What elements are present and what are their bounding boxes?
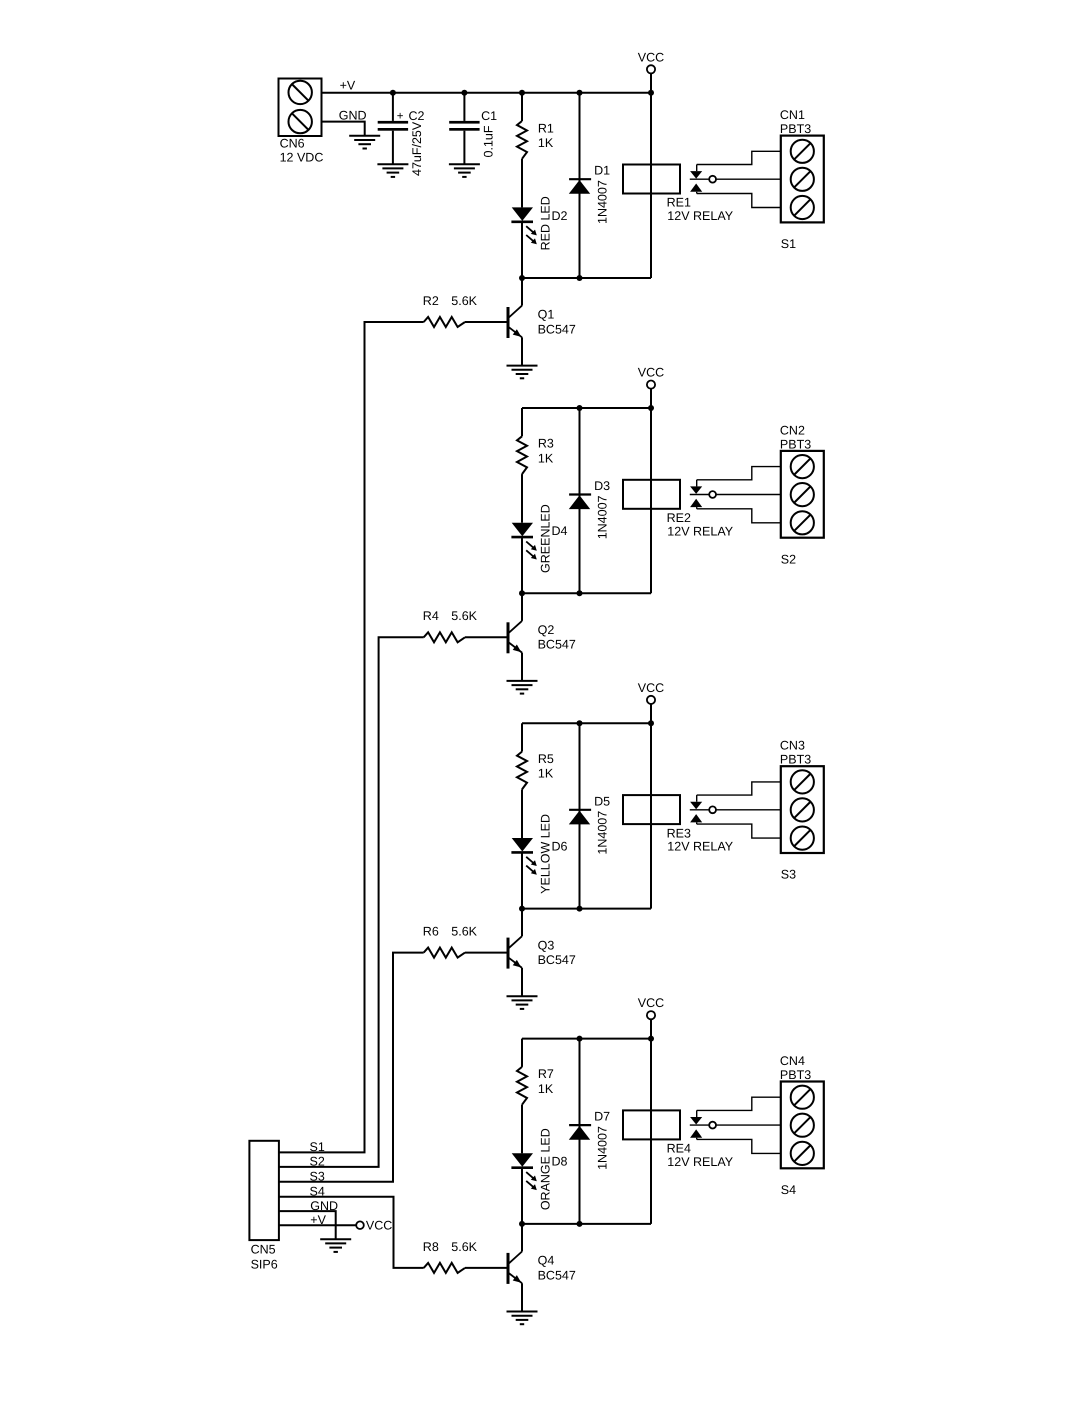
wire GND from CN6 to ground [322,122,365,136]
resistor R1 1K [517,93,554,208]
svg-text:D1: D1 [594,164,610,178]
wire relay NC contact to CN4 pin 1 [697,1097,781,1110]
wire +V bus channel 4 [522,1038,651,1040]
svg-text:R5: R5 [538,752,554,766]
ground at Q2 emitter [507,681,538,694]
svg-text:PBT3: PBT3 [780,437,811,451]
svg-text:PBT3: PBT3 [780,1068,811,1082]
svg-text:Q1: Q1 [538,308,555,322]
svg-text:RED LED: RED LED [538,196,552,250]
junction dot VCC/bus channel 3 [648,720,654,726]
diode D5 1N4007 flyback [569,723,610,908]
VCC supply symbol channel 4 [638,996,664,1038]
wire +V bus channel 3 [522,722,651,724]
svg-text:12V RELAY: 12V RELAY [667,1155,733,1169]
wire S4 from CN5 to Q4 base resistor R8 [279,1197,424,1268]
svg-text:12V RELAY: 12V RELAY [667,524,733,538]
junction dot LED D2 bottom [519,275,525,281]
junction dot D3 bottom [577,590,583,596]
svg-text:BC547: BC547 [538,322,576,336]
svg-text:S1: S1 [781,237,796,251]
svg-text:BC547: BC547 [538,1268,576,1282]
svg-text:12V RELAY: 12V RELAY [667,209,733,223]
svg-text:VCC: VCC [638,50,664,64]
resistor R8 5.6K base resistor [423,1240,507,1273]
junction dot VCC/bus channel 2 [648,405,654,411]
svg-text:VCC: VCC [638,681,664,695]
junction dot C2 on +V bus [390,90,396,96]
svg-text:GND: GND [339,108,367,122]
LED D4 GREENLED [511,523,567,594]
junction dot VCC/bus channel 1 [648,90,654,96]
junction dot D5 bottom [577,906,583,912]
svg-text:BC547: BC547 [538,638,576,652]
relay RE4 coil [623,1110,734,1169]
connector CN4 PBT3 screw terminal [780,1054,824,1168]
svg-text:5.6K: 5.6K [451,609,477,623]
svg-text:VCC: VCC [638,366,664,380]
svg-text:0.1uF: 0.1uF [482,125,496,157]
svg-text:R1: R1 [538,121,554,135]
connector CN5 SIP6 [249,1141,279,1272]
svg-text:R6: R6 [423,925,439,939]
VCC supply symbol channel 3 [638,681,664,723]
ground at CN5 [320,1239,351,1252]
svg-text:47uF/25V: 47uF/25V [410,121,424,176]
relay RE3 contacts [690,795,781,824]
wire S3 from CN5 to Q3 base resistor R6 [279,953,424,1182]
wire GND from CN5 to ground [279,1211,336,1239]
svg-text:+: + [397,111,404,123]
wire +V from CN5 to VCC terminal [279,1224,356,1226]
wire relay NC contact to CN2 pin 1 [697,467,781,480]
svg-text:1K: 1K [538,451,554,465]
wire S2 from CN5 to Q2 base resistor R4 [279,637,424,1167]
svg-text:C2: C2 [409,109,425,123]
svg-text:R4: R4 [423,609,439,623]
junction dot LED D8 bottom [519,1221,525,1227]
svg-text:5.6K: 5.6K [451,294,477,308]
resistor R5 1K [517,723,554,838]
junction dot VCC/bus channel 4 [648,1036,654,1042]
relay RE1 contacts [690,165,781,194]
svg-text:D6: D6 [552,839,568,853]
diode D7 1N4007 flyback [569,1039,610,1224]
svg-text:C1: C1 [481,109,497,123]
junction dot LED D4 bottom [519,590,525,596]
connector CN1 PBT3 screw terminal [780,108,824,222]
svg-text:1K: 1K [538,1082,554,1096]
diode D3 1N4007 flyback [569,408,610,593]
svg-text:YELLOW LED: YELLOW LED [538,814,552,894]
relay RE4 contacts [690,1110,781,1139]
junction dot C1 on +V bus [461,90,467,96]
svg-text:Q4: Q4 [538,1254,555,1268]
junction dot LED D6 bottom [519,906,525,912]
junction dot D5 top [577,720,583,726]
wire relay NO contact to CN3 pin 3 [697,824,781,838]
ground at C2 [377,164,408,177]
svg-text:CN3: CN3 [780,739,805,753]
wire relay NC contact to CN3 pin 1 [697,782,781,795]
junction dot D1 top [577,90,583,96]
ground at CN6 [349,136,380,149]
svg-text:5.6K: 5.6K [451,1240,477,1254]
junction dot D3 top [577,405,583,411]
junction dot D7 bottom [577,1221,583,1227]
resistor R3 1K [517,408,554,523]
capacitor C2 47uF/25V [378,93,425,176]
wire relay NO contact to CN2 pin 3 [697,509,781,523]
resistor R4 5.6K base resistor [423,609,507,642]
svg-text:BC547: BC547 [538,953,576,967]
svg-text:12 VDC: 12 VDC [280,151,324,165]
capacitor C1 0.1uF [449,93,497,165]
svg-text:Q3: Q3 [538,938,555,952]
svg-text:CN5: CN5 [251,1242,276,1256]
transistor Q4 BC547 [508,1224,576,1312]
svg-text:CN1: CN1 [780,108,805,122]
junction dot D1 bottom [577,275,583,281]
wire VCC column through relay coil RE3 [650,704,652,909]
svg-text:1N4007: 1N4007 [596,495,610,539]
svg-text:RE2: RE2 [667,511,691,525]
svg-text:D4: D4 [552,524,568,538]
wire relay NO contact to CN4 pin 3 [697,1139,781,1153]
svg-text:GREENLED: GREENLED [538,504,552,573]
VCC terminal at CN5 +V pin [356,1219,392,1233]
svg-text:VCC: VCC [366,1219,392,1233]
relay RE3 coil [623,795,734,854]
transistor Q1 BC547 [508,278,576,366]
LED D8 ORANGE LED [511,1153,567,1224]
svg-text:D2: D2 [552,209,568,223]
wire collector rail channel 1 [522,277,651,279]
relay RE2 coil [623,480,734,539]
transistor Q3 BC547 [508,909,576,997]
svg-text:S3: S3 [781,868,796,882]
ground at Q4 emitter [507,1312,538,1325]
wire VCC column through relay coil RE1 [650,73,652,278]
svg-text:S2: S2 [781,552,796,566]
wire relay NO contact to CN1 pin 3 [697,194,781,208]
svg-text:S4: S4 [781,1183,796,1197]
svg-text:1K: 1K [538,767,554,781]
junction dot R1 on +V bus [519,90,525,96]
svg-text:R2: R2 [423,294,439,308]
transistor Q2 BC547 [508,593,576,681]
svg-text:VCC: VCC [638,996,664,1010]
LED D2 RED LED [511,207,567,278]
LED D6 YELLOW LED [511,838,567,909]
svg-text:R3: R3 [538,437,554,451]
wire relay NC contact to CN1 pin 1 [697,151,781,164]
connector CN3 PBT3 screw terminal [780,739,824,853]
svg-text:R8: R8 [423,1240,439,1254]
relay RE2 contacts [690,480,781,509]
relay RE1 coil [623,165,734,224]
svg-text:R7: R7 [538,1067,554,1081]
svg-text:1N4007: 1N4007 [596,811,610,855]
ground at Q3 emitter [507,996,538,1009]
ground at C1 [449,164,480,177]
svg-text:CN6: CN6 [280,137,305,151]
VCC supply symbol channel 1 [638,50,664,92]
svg-text:ORANGE LED: ORANGE LED [538,1128,552,1210]
svg-text:CN4: CN4 [780,1054,805,1068]
connector CN2 PBT3 screw terminal [780,423,824,537]
connector CN6 12VDC screw terminal [279,79,324,165]
wire S1 from CN5 to Q1 base resistor R2 [279,322,424,1152]
wire +V bus channel 1 [322,92,652,94]
wire collector rail channel 2 [522,592,651,594]
svg-text:RE3: RE3 [667,826,691,840]
svg-text:Q2: Q2 [538,623,555,637]
resistor R6 5.6K base resistor [423,925,507,958]
wire +V bus channel 2 [522,407,651,409]
svg-text:12V RELAY: 12V RELAY [667,840,733,854]
svg-text:PBT3: PBT3 [780,753,811,767]
svg-text:CN2: CN2 [780,423,805,437]
svg-text:1K: 1K [538,136,554,150]
wire VCC column through relay coil RE2 [650,389,652,594]
svg-text:PBT3: PBT3 [780,122,811,136]
svg-text:5.6K: 5.6K [451,925,477,939]
resistor R7 1K [517,1039,554,1154]
svg-text:SIP6: SIP6 [251,1258,278,1272]
svg-text:D7: D7 [594,1110,610,1124]
wire collector rail channel 3 [522,908,651,910]
svg-text:RE1: RE1 [667,196,691,210]
svg-text:D3: D3 [594,479,610,493]
resistor R2 5.6K base resistor [423,294,507,327]
svg-text:RE4: RE4 [667,1142,691,1156]
svg-text:+V: +V [340,78,356,92]
svg-text:1N4007: 1N4007 [596,180,610,224]
ground at Q1 emitter [507,366,538,379]
diode D1 1N4007 flyback [569,93,610,278]
wire VCC column through relay coil RE4 [650,1019,652,1224]
VCC supply symbol channel 2 [638,366,664,408]
junction dot D7 top [577,1036,583,1042]
svg-text:D5: D5 [594,794,610,808]
svg-text:1N4007: 1N4007 [596,1126,610,1170]
svg-text:D8: D8 [552,1155,568,1169]
wire collector rail channel 4 [522,1223,651,1225]
